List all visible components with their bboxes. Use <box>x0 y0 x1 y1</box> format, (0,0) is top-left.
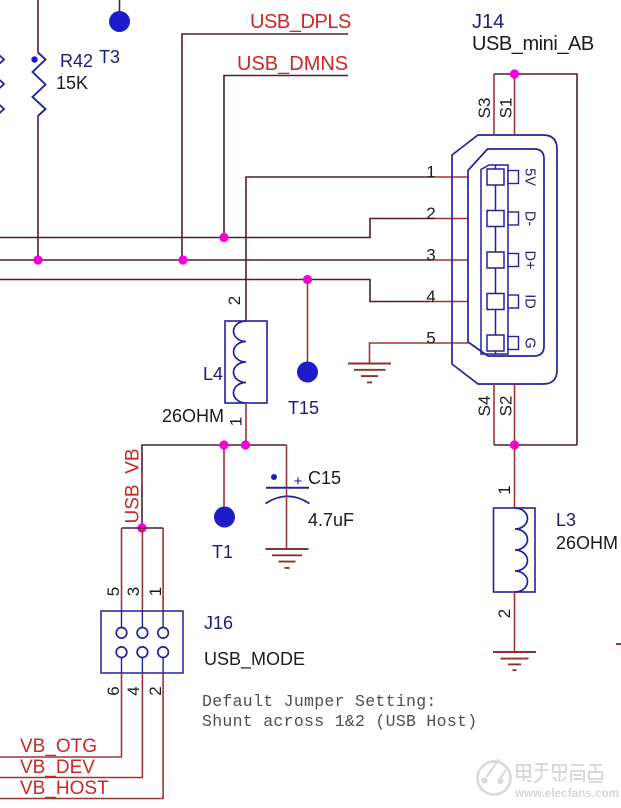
ground GND at L3 <box>493 652 536 670</box>
wire T15 <box>307 280 309 362</box>
svg-text:R42: R42 <box>60 51 93 71</box>
pin square ID <box>487 294 504 310</box>
svg-text:1: 1 <box>426 163 435 182</box>
pin tab G <box>508 337 519 350</box>
wire pin5 to ground <box>370 343 431 363</box>
off-page arrow 2 <box>0 79 4 90</box>
svg-text:26OHM: 26OHM <box>162 406 224 426</box>
connector J16 body <box>101 611 183 673</box>
J16 pad 5 <box>116 628 127 639</box>
pin stub J14 pin 1 <box>430 176 468 178</box>
svg-text:26OHM: 26OHM <box>556 533 618 553</box>
svg-text:2: 2 <box>146 686 165 695</box>
connector J14 pin ladder <box>495 165 497 354</box>
J16 pad 4 <box>137 647 148 658</box>
wire USB_DPLS <box>182 34 348 260</box>
connector J14 blade <box>481 165 508 354</box>
svg-text:T15: T15 <box>288 398 319 418</box>
pin square G <box>487 335 504 351</box>
wire S1 stub <box>514 74 516 135</box>
svg-text:2: 2 <box>426 204 435 223</box>
svg-text:VB_OTG: VB_OTG <box>20 736 97 757</box>
inductor L3 coil <box>515 508 528 592</box>
off-page arrow 3 <box>0 104 4 115</box>
wire VB_OTG <box>0 673 122 757</box>
junction node shield top <box>510 69 519 78</box>
wire T1 <box>223 445 225 507</box>
svg-text:4.7uF: 4.7uF <box>308 510 354 530</box>
inductor L4 body <box>225 321 267 403</box>
J16 pad 6 <box>116 647 127 658</box>
svg-text:1: 1 <box>146 587 165 596</box>
svg-text:5: 5 <box>104 587 123 596</box>
svg-text:3: 3 <box>124 587 143 596</box>
junction node USB_VB/J16 <box>137 523 146 532</box>
wire L4 pin1 <box>245 403 247 445</box>
wire L3 bottom <box>514 592 516 652</box>
svg-text:L4: L4 <box>203 364 223 384</box>
wire S2 stub <box>514 384 516 445</box>
svg-text:5: 5 <box>426 329 435 348</box>
svg-text:USB_DPLS: USB_DPLS <box>250 11 351 33</box>
wire C15 top <box>286 445 288 488</box>
junction node L4 pin1 <box>241 440 250 449</box>
pin square D- <box>487 211 504 227</box>
svg-text:D-: D- <box>522 211 538 226</box>
pin square D+ <box>487 252 504 268</box>
svg-text:+: + <box>294 473 303 490</box>
svg-text:USB_MODE: USB_MODE <box>204 649 305 670</box>
svg-text:USB_VB: USB_VB <box>123 449 144 524</box>
wire S3 stub <box>493 74 495 135</box>
junction node D+/R42 <box>33 255 42 264</box>
svg-text:ID: ID <box>522 294 538 309</box>
wire shield top rail <box>494 74 577 445</box>
pin stub J14 pin 2 <box>430 218 468 220</box>
svg-text:J16: J16 <box>204 613 233 633</box>
svg-text:C15: C15 <box>308 468 341 488</box>
wire 5V net <box>246 177 430 321</box>
svg-text:www.elecfans.com: www.elecfans.com <box>514 788 619 800</box>
pin stub J14 pin 4 <box>430 301 468 303</box>
off-page arrow 1 <box>0 54 4 65</box>
svg-text:4: 4 <box>124 686 143 695</box>
J16 pad 1 <box>158 628 169 639</box>
wire J16 top bus <box>122 527 164 529</box>
svg-text:USB_DMNS: USB_DMNS <box>237 53 348 75</box>
wire VB_HOST <box>0 673 163 799</box>
svg-text:Shunt across 1&2 (USB Host): Shunt across 1&2 (USB Host) <box>202 712 477 731</box>
wire J16 pin5 leg <box>121 528 123 611</box>
ground GND at C15 <box>266 549 309 568</box>
svg-text:USB_mini_AB: USB_mini_AB <box>472 33 594 55</box>
wire shield bottom rail <box>494 444 577 446</box>
svg-text:G: G <box>522 337 538 348</box>
svg-text:Default Jumper Setting:: Default Jumper Setting: <box>202 692 437 711</box>
J16 pad 3 <box>137 628 148 639</box>
pin tab ID <box>508 295 519 308</box>
stray mark right edge <box>616 643 621 645</box>
pin tab 5V <box>508 171 519 184</box>
resistor R42 <box>33 53 46 117</box>
wire J16 pin3 leg <box>141 528 143 611</box>
wire D+ bus <box>0 259 430 261</box>
connector J14 outer outline <box>452 135 557 384</box>
svg-text:S2: S2 <box>497 396 516 417</box>
test point T3 <box>109 11 130 32</box>
test point T1 <box>214 507 235 528</box>
watermark logo trace <box>487 759 507 778</box>
svg-text:5V: 5V <box>522 168 538 186</box>
pin square 5V <box>487 169 504 185</box>
svg-text:4: 4 <box>426 287 435 306</box>
watermark hanzi <box>517 764 602 782</box>
svg-text:2: 2 <box>495 609 514 618</box>
wire T3 stub <box>119 0 121 12</box>
inductor L4 coil <box>234 321 247 403</box>
wire ID bus <box>0 280 430 302</box>
svg-text:VB_DEV: VB_DEV <box>20 757 95 778</box>
junction node D+/USB_DPLS <box>178 255 187 264</box>
polarity dot C15 <box>271 474 277 480</box>
svg-text:S1: S1 <box>497 98 516 119</box>
svg-text:1: 1 <box>227 417 246 426</box>
wire D- bus <box>0 219 430 238</box>
pin tab D- <box>508 212 519 225</box>
svg-text:2: 2 <box>225 296 244 305</box>
svg-text:6: 6 <box>104 686 123 695</box>
capacitor C15 plate <box>266 487 309 489</box>
watermark logo circle <box>478 762 511 795</box>
ground GND near pin G <box>348 364 391 383</box>
svg-text:T1: T1 <box>212 542 233 562</box>
capacitor C15 curved plate <box>266 496 310 503</box>
wire R42 top <box>37 0 39 53</box>
junction node ID/T15 <box>303 275 312 284</box>
svg-text:VB_HOST: VB_HOST <box>20 778 109 799</box>
wire VB_DEV <box>0 673 142 778</box>
pin stub J14 pin 3 <box>430 259 468 261</box>
test point T15 <box>297 362 318 383</box>
wire S4 stub <box>493 384 495 445</box>
svg-text:S3: S3 <box>475 98 494 119</box>
inductor L3 body <box>494 508 536 592</box>
svg-text:T3: T3 <box>99 47 120 67</box>
connector J14 inner outline <box>468 149 544 356</box>
wire USB_DMNS <box>224 76 348 238</box>
wire USB_VB rail <box>142 445 287 528</box>
junction node D-/USB_DMNS <box>219 233 228 242</box>
junction node shield bottom <box>510 440 519 449</box>
wire R42 bottom <box>37 116 39 260</box>
pin stub J14 pin 5 <box>430 342 468 344</box>
J16 pin stubs top <box>122 611 164 673</box>
svg-text:1: 1 <box>495 485 514 494</box>
svg-text:3: 3 <box>426 246 435 265</box>
wire C15 bottom <box>286 489 288 549</box>
pin tab D+ <box>508 254 519 267</box>
junction node L4/T1 <box>219 440 228 449</box>
svg-text:L3: L3 <box>556 510 576 530</box>
wire L3 top <box>514 445 516 508</box>
svg-text:J14: J14 <box>472 11 504 33</box>
wire J16 pin1 leg <box>162 528 164 611</box>
J16 pad 2 <box>158 647 169 658</box>
svg-text:S4: S4 <box>475 396 494 417</box>
svg-text:15K: 15K <box>56 73 88 93</box>
svg-text:D+: D+ <box>522 251 538 270</box>
